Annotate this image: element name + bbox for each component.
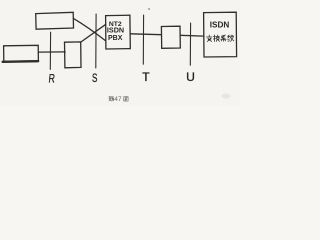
- box NT2: [106, 15, 131, 49]
- label 交换系统 (drawn glyphs): [206, 35, 233, 41]
- char 换: [213, 35, 219, 41]
- box ISDN switch: [204, 12, 237, 57]
- caption 题47图: [109, 96, 128, 103]
- speck top-middle: [148, 8, 150, 10]
- char 题: [109, 97, 114, 101]
- reference tick T: [142, 15, 144, 64]
- char 系: [221, 35, 226, 41]
- char 交: [206, 35, 211, 41]
- char 统: [228, 35, 234, 41]
- char 图: [124, 97, 128, 101]
- box TE top-left: [36, 12, 74, 29]
- box NT1: [161, 26, 180, 48]
- wire diagonal TA to NT2: [80, 24, 105, 42]
- reference tick U: [189, 23, 191, 65]
- reference tick R: [49, 32, 51, 69]
- smudge bottom-right: [222, 93, 231, 98]
- reference tick S: [95, 14, 97, 68]
- wire diagonal TE to NT2: [73, 18, 105, 40]
- wire NT2 to NT1: [130, 33, 161, 36]
- paper noise overlay: [0, 0, 240, 106]
- label NT2 / ISDN / PBX: [107, 21, 124, 42]
- wire TE2 to TA: [38, 51, 65, 53]
- box TE2 thick bottom edge: [3, 60, 39, 63]
- wire NT1 to ISDN switch: [180, 34, 203, 37]
- box TA: [65, 42, 82, 68]
- box TE2 lower-left: [4, 45, 39, 61]
